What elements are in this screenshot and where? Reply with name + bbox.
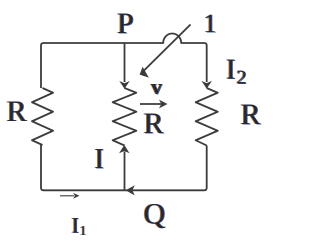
label R middle — [143, 107, 165, 140]
svg-text:I: I — [226, 55, 235, 86]
wire top with crossover hump and left/right corners — [41, 34, 207, 89]
arrowhead diagonal I — [140, 67, 149, 78]
label 1 (current I) — [203, 9, 218, 38]
node P label — [116, 7, 134, 40]
resistor R2 middle — [113, 88, 137, 146]
wire arrow v — [140, 103, 162, 105]
label I2 — [225, 55, 247, 89]
arrowhead right branch down — [202, 81, 212, 89]
svg-text:R: R — [241, 98, 261, 131]
label R right — [240, 98, 262, 131]
arrowhead bottom wire left — [126, 185, 135, 195]
wire bottom with left and right verticals — [41, 145, 207, 190]
label I (current through middle) — [94, 144, 105, 175]
wire middle branch bottom — [124, 152, 126, 191]
arrowhead v right — [159, 100, 168, 109]
svg-text:Q: Q — [144, 197, 166, 230]
wire diagonal current I — [144, 25, 191, 71]
resistor R3 right — [196, 88, 218, 146]
resistor R1 left — [32, 88, 53, 145]
svg-text:1: 1 — [204, 9, 217, 38]
svg-text:1: 1 — [80, 223, 87, 238]
arrowhead middle branch down — [119, 81, 129, 89]
arrowhead I1 right — [73, 193, 79, 199]
svg-text:2: 2 — [237, 67, 247, 89]
svg-text:R: R — [144, 107, 164, 140]
wire middle branch top — [124, 43, 126, 82]
svg-text:P: P — [117, 7, 134, 40]
svg-text:R: R — [7, 95, 27, 128]
arrowhead middle branch up — [119, 145, 129, 153]
label R left — [6, 95, 28, 128]
node Q label — [143, 197, 167, 230]
wire arrow I1 — [60, 195, 74, 197]
svg-text:v: v — [151, 74, 162, 99]
label I1 — [71, 213, 87, 239]
svg-text:I: I — [95, 144, 104, 175]
svg-text:I: I — [72, 213, 79, 238]
label v — [150, 74, 163, 99]
